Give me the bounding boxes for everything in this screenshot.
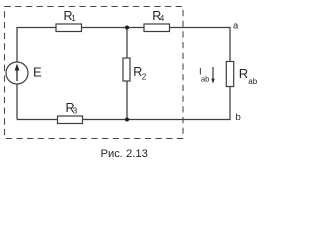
wire: top rail from left corner through R1, node, R4 to corner a	[17, 28, 230, 63]
junction node at top of R2 branch	[125, 26, 129, 30]
label R1	[64, 9, 77, 23]
wire: middle branch through R2	[126, 28, 128, 120]
label R2	[133, 65, 147, 82]
wire: left rail below source E down to bottom rail	[16, 84, 18, 120]
svg-text:3: 3	[73, 107, 78, 116]
svg-text:b: b	[236, 112, 241, 123]
resistor R2	[123, 58, 130, 81]
label E	[33, 65, 42, 80]
resistor R1	[56, 24, 82, 32]
svg-text:R: R	[239, 66, 248, 81]
EMF source E (circle with upward arrow)	[6, 62, 28, 84]
svg-text:1: 1	[71, 14, 76, 23]
svg-text:Рис. 2.13: Рис. 2.13	[101, 148, 148, 160]
resistor Rab	[226, 62, 233, 87]
label R3	[66, 101, 78, 116]
resistor R4	[144, 24, 170, 32]
svg-text:2: 2	[142, 73, 147, 82]
svg-text:ab: ab	[248, 77, 257, 86]
svg-text:ab: ab	[201, 75, 209, 84]
resistor R3	[58, 116, 83, 124]
node a	[233, 20, 239, 31]
caption Рис. 2.13	[101, 148, 148, 160]
junction node at bottom of R2 branch	[125, 118, 129, 122]
svg-text:E: E	[33, 65, 42, 80]
node b	[236, 112, 241, 123]
current arrow Iab	[211, 67, 214, 84]
dashed network boundary	[5, 7, 184, 139]
label R4	[152, 9, 165, 23]
svg-text:4: 4	[160, 14, 165, 23]
label Rab	[239, 66, 258, 86]
svg-text:a: a	[233, 20, 239, 31]
label Iab	[199, 67, 209, 84]
wire: bottom rail from left corner through R3 and node b corner	[17, 86, 230, 120]
